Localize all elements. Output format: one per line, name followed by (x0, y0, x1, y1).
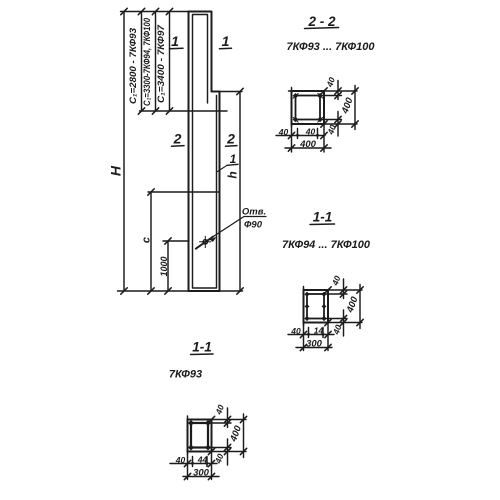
section 1-1 right outer rect (304, 290, 329, 323)
dimension 1000 line (167, 241, 169, 291)
section 2-2 right dims (320, 81, 357, 137)
line at y=192 (embedment level) (148, 191, 220, 193)
section title 2-2 (305, 14, 339, 29)
svg-text:40: 40 (175, 455, 186, 465)
svg-text:40: 40 (213, 403, 226, 417)
svg-text:7КФ94 ... 7КФ100: 7КФ94 ... 7КФ100 (282, 239, 371, 251)
svg-text:44: 44 (197, 455, 208, 465)
section 2-2 stirrup (296, 96, 321, 120)
section 1-1 right bottom dims (288, 323, 334, 351)
hole centerline extension (163, 240, 189, 242)
svg-text:C₁=3300-7КФ94, 7КФ100: C₁=3300-7КФ94, 7КФ100 (142, 18, 152, 106)
section 1-1 right rebar dots (304, 292, 326, 322)
svg-text:h: h (226, 171, 240, 178)
section 1-1 bottom rebar dots (188, 420, 211, 451)
svg-text:Отв.: Отв. (242, 207, 266, 218)
dimension H line (123, 12, 125, 292)
hole leader line (210, 217, 267, 242)
svg-text:C₁=3400 - 7КФ97: C₁=3400 - 7КФ97 (156, 24, 166, 103)
svg-text:1000: 1000 (159, 256, 169, 276)
svg-text:400: 400 (339, 96, 355, 116)
svg-text:40: 40 (305, 127, 316, 137)
dimension c line (150, 192, 152, 291)
label Otv. F90 (242, 207, 266, 231)
section 2-2 outer square (292, 91, 325, 124)
svg-text:2: 2 (173, 131, 182, 147)
svg-text:1-1: 1-1 (192, 340, 212, 355)
svg-text:300: 300 (306, 339, 323, 350)
svg-text:c: c (141, 237, 153, 243)
section mark 1 left (170, 33, 184, 49)
svg-text:40: 40 (278, 127, 289, 137)
section title 1-1 (bottom left) (191, 340, 214, 355)
section 1-1 bottom stirrup (191, 423, 208, 448)
svg-text:7КФ93: 7КФ93 (169, 369, 202, 381)
svg-text:400: 400 (299, 139, 317, 150)
ticks bottom line (121, 288, 171, 294)
callout 1 with leader (218, 152, 239, 172)
step extension line to h (220, 91, 243, 93)
svg-text:40: 40 (324, 76, 337, 90)
section 2-2 rebar dots (293, 93, 323, 122)
ticks on y=111 line (138, 108, 172, 114)
section 1-1 right dims (324, 279, 362, 336)
svg-text:1-1: 1-1 (313, 210, 333, 225)
section mark 2 left (172, 131, 185, 147)
section mark 1 right (220, 33, 232, 49)
svg-text:1: 1 (222, 33, 230, 49)
section 1-1 bottom outer rect (188, 420, 212, 452)
C1 dim lines (142, 12, 170, 112)
top dimension line (121, 11, 189, 13)
svg-text:Ф90: Ф90 (244, 220, 263, 231)
line under C texts (140, 110, 228, 112)
svg-text:40: 40 (290, 326, 301, 336)
column outline (front view) (189, 12, 220, 292)
svg-text:2 - 2: 2 - 2 (307, 14, 336, 29)
section 1-1 bottom bottom dims (170, 452, 219, 480)
section mark 2 right (226, 131, 238, 147)
hole Otv F90 (196, 236, 213, 249)
svg-text:2: 2 (226, 131, 235, 147)
bottom extension line (118, 290, 243, 292)
svg-text:C₁=2800 - 7КФ93: C₁=2800 - 7КФ93 (128, 28, 138, 104)
svg-text:40: 40 (330, 274, 343, 288)
section 1-1 bottom right dims (208, 408, 246, 465)
dimension h line (239, 92, 241, 292)
section title 1-1 (right) (310, 210, 335, 225)
svg-text:14: 14 (314, 326, 324, 336)
svg-text:H: H (108, 165, 124, 176)
svg-text:400: 400 (228, 424, 244, 444)
column inner double lines (193, 15, 217, 289)
svg-text:7КФ93 ... 7КФ100: 7КФ93 ... 7КФ100 (287, 41, 376, 53)
section 2-2 bottom dims (276, 124, 331, 152)
section 1-1 right stirrup (307, 294, 324, 319)
svg-text:400: 400 (344, 295, 360, 315)
svg-text:300: 300 (193, 468, 210, 479)
svg-text:1: 1 (171, 33, 179, 49)
ticks top line (121, 8, 173, 14)
